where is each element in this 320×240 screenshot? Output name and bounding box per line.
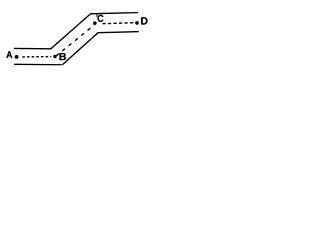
node A dot	[15, 55, 19, 59]
wire: lower edge of ramp continuing into bottom edge of upper band	[62, 32, 138, 65]
node B label	[60, 53, 67, 60]
node D dot	[135, 21, 139, 25]
wire: dashed path C to D	[103, 22, 134, 25]
node C dot	[93, 21, 97, 25]
node B dot	[53, 55, 56, 58]
wire: short tick below top edge left of C	[96, 14, 97, 17]
wire: bottom edge of lower horizontal band	[14, 63, 62, 65]
wire: dashed path A to B	[22, 56, 51, 58]
wire: upper outline of zigzag band (lower level, ramp, upper level)	[14, 13, 138, 49]
node A label	[6, 51, 12, 58]
node C label	[98, 15, 104, 22]
node D label	[141, 17, 147, 24]
wire: dashed path B to C (ramp centerline)	[56, 25, 95, 56]
